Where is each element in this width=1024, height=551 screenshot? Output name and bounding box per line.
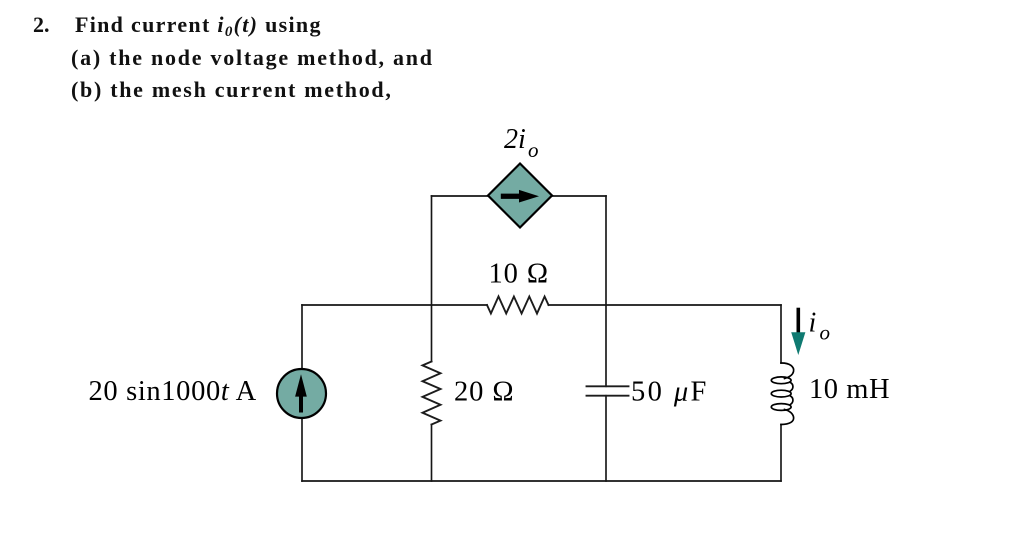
independent current source circle [277, 369, 326, 418]
dependent current source diamond 2io [488, 164, 552, 228]
svg-text:10 mH: 10 mH [809, 374, 890, 405]
wire bottom horizontal [302, 480, 781, 482]
problem number 2. [33, 14, 50, 36]
wire upper loop right of diamond [552, 195, 606, 197]
resistor 20 ohm (vertical zigzag) [423, 362, 441, 425]
wire branch1 vertical lower [431, 425, 433, 482]
wire right vertical below inductor [780, 425, 782, 482]
svg-text:i: i [809, 308, 817, 339]
svg-text:10 Ω: 10 Ω [489, 259, 549, 290]
current arrow io (shaft + teal head) [791, 310, 805, 356]
wire right vertical above inductor [780, 305, 782, 363]
wire branch2 vertical upper (capacitor branch above top plate) [605, 196, 607, 386]
svg-text:2i: 2i [504, 124, 526, 155]
capacitor 50uF plates [587, 386, 629, 395]
wire left vertical [301, 305, 303, 481]
wire upper loop left of diamond [432, 195, 489, 197]
problem text line 3 [71, 79, 393, 101]
problem text line 2 [71, 47, 434, 69]
inductor 10mH coil [771, 363, 793, 425]
resistor 10 ohm (horizontal zigzag) [487, 297, 549, 314]
wire branch1 vertical upper (20 ohm branch above top wire) [431, 196, 433, 362]
svg-text:o: o [820, 321, 831, 345]
label 2io [504, 124, 539, 162]
svg-text:20 sin1000t A: 20 sin1000t A [89, 376, 257, 407]
svg-text:o: o [528, 138, 539, 162]
problem text line 1 [75, 14, 322, 43]
svg-text:50 μF: 50 μF [631, 377, 709, 408]
wire top horizontal left of 10ohm resistor [302, 304, 487, 306]
wire top horizontal right of 10ohm resistor [549, 304, 782, 306]
wire branch2 vertical lower [605, 396, 607, 481]
svg-text:20 Ω: 20 Ω [454, 377, 514, 408]
label io [809, 308, 831, 345]
